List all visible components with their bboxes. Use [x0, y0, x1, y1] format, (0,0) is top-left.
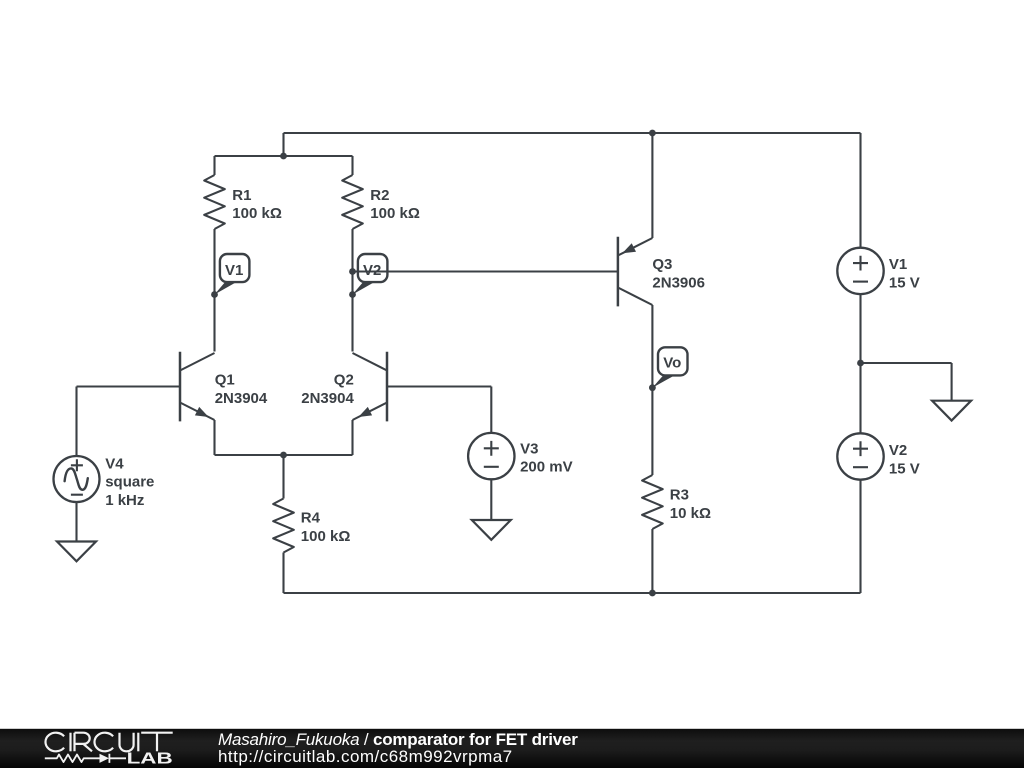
svg-text:200 mV: 200 mV [520, 459, 573, 476]
svg-text:square: square [105, 474, 154, 491]
svg-text:15 V: 15 V [889, 461, 920, 478]
svg-text:LAB: LAB [127, 750, 173, 767]
svg-text:V4: V4 [105, 455, 124, 472]
svg-text:R4: R4 [301, 510, 321, 527]
svg-text:V2: V2 [889, 442, 907, 459]
svg-text:Q1: Q1 [215, 372, 235, 389]
svg-text:100 kΩ: 100 kΩ [232, 205, 282, 222]
svg-text:2N3906: 2N3906 [652, 274, 705, 291]
svg-text:V2: V2 [363, 262, 381, 279]
svg-text:2N3904: 2N3904 [301, 390, 354, 407]
svg-text:V3: V3 [520, 441, 538, 458]
svg-text:http://circuitlab.com/c68m992v: http://circuitlab.com/c68m992vrpma7 [218, 747, 513, 766]
svg-text:R1: R1 [232, 187, 251, 204]
svg-text:100 kΩ: 100 kΩ [301, 528, 351, 545]
svg-text:V1: V1 [889, 256, 907, 273]
svg-text:Vo: Vo [663, 355, 681, 372]
svg-text:100 kΩ: 100 kΩ [370, 205, 420, 222]
svg-text:15 V: 15 V [889, 275, 920, 292]
svg-text:R3: R3 [670, 486, 689, 503]
svg-text:2N3904: 2N3904 [215, 390, 268, 407]
svg-text:Q2: Q2 [334, 372, 354, 389]
svg-text:1 kHz: 1 kHz [105, 492, 144, 509]
svg-text:R2: R2 [370, 187, 389, 204]
svg-text:10 kΩ: 10 kΩ [670, 505, 711, 522]
svg-text:Q3: Q3 [652, 256, 672, 273]
svg-text:V1: V1 [225, 262, 243, 279]
